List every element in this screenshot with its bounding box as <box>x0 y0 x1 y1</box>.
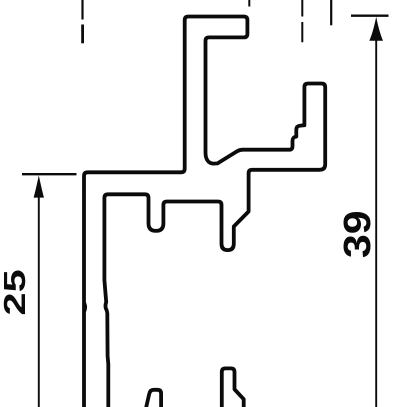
centerline stub above arm <box>248 0 250 7</box>
dimension 25 arrowhead <box>34 175 44 197</box>
node bump on outer left wall <box>85 300 88 315</box>
dimension 39 extension line <box>351 14 389 16</box>
dimension 39 arrowhead <box>369 17 383 41</box>
wire profile main outline <box>84 17 325 407</box>
wire bottom-right rib <box>222 368 244 407</box>
svg-text:25: 25 <box>0 269 32 315</box>
dimension 39 line <box>375 40 377 407</box>
wire bottom-left rib <box>146 390 161 407</box>
centerline right <box>301 0 303 42</box>
centerline far right <box>330 0 332 25</box>
dimension 25 line <box>38 196 40 407</box>
dimension 25 extension line <box>22 173 77 175</box>
svg-text:39: 39 <box>335 210 378 258</box>
centerline left <box>81 0 83 20</box>
